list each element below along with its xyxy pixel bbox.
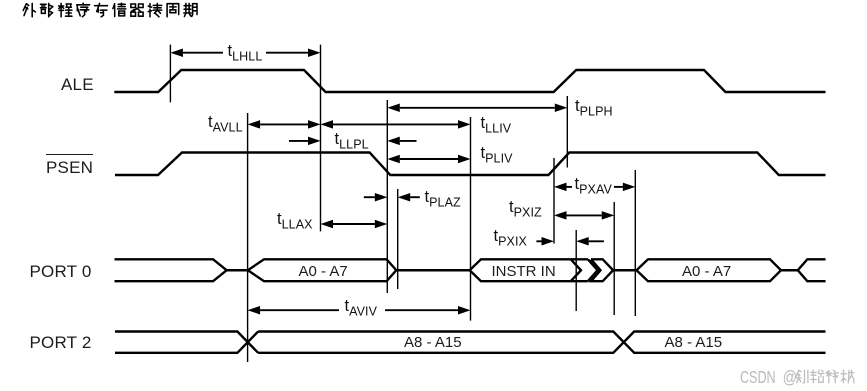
label PORT 2 [30, 334, 92, 351]
node tick tPXAV-right [634, 170, 636, 316]
wire PORT2 bus A8-A15 first segment [115, 332, 258, 353]
wire PORT0 trailing open segment [798, 259, 826, 281]
label tAVLL [208, 116, 243, 135]
label tAVIV [345, 300, 378, 319]
wire PORT0 float line 2 [396, 269, 469, 271]
node tick data-valid [470, 117, 472, 321]
node tick tPXIX-right [575, 230, 577, 311]
node tick tPLAZ-right [397, 189, 399, 289]
watermark CSDN [740, 369, 776, 386]
wire tAVLL dimension arrow [248, 120, 261, 128]
wire tPXAV dimension arrow [554, 183, 567, 192]
wire PORT0 float line 4 [781, 269, 798, 271]
wire PORT0 bus leading segment [115, 259, 227, 281]
node tick ALE-rise tLHLL left [169, 45, 171, 103]
label ALE [61, 76, 94, 93]
label tPLPH [575, 100, 613, 119]
wire tPLPH dimension arrow [387, 104, 400, 113]
label tPXIX [494, 230, 527, 249]
label bus value A8 - A15 first [404, 335, 462, 350]
wire tLHLL dimension arrow [170, 48, 183, 57]
node PORT0 second A0-A7 hexagon [637, 259, 782, 281]
wire tLLPL right outside arrow [387, 137, 400, 146]
wire tPXIX right outside arrow [576, 237, 589, 246]
wire tLLIV dimension arrow [321, 120, 334, 128]
node tick address-valid [247, 113, 249, 362]
title 外部程序存储器读周期 (drawn strokes) [23, 4, 26, 11]
wire tLLPL left outside arrow [289, 140, 308, 142]
node tick tPLPH-right [566, 96, 568, 168]
label bus value A0 - A7 first [299, 264, 348, 279]
label tLLPL [335, 133, 369, 152]
wire PSEN signal trace [115, 153, 826, 176]
node tick PSEN-rise tPXAV-left [553, 158, 555, 244]
wire tPLAZ right outside arrow [398, 193, 411, 202]
label tLLIV [481, 117, 512, 136]
wire tAVIV dimension arrow [248, 306, 261, 315]
label PSEN (with overline) [46, 154, 93, 176]
label PORT 0 [30, 263, 92, 280]
label tPLIV [481, 147, 513, 166]
node PORT0 A0-A7 address hexagon [248, 259, 396, 281]
wire tPXIZ dimension arrow [554, 211, 567, 220]
wire PORT0 float line 1 [227, 269, 248, 271]
label tLLAX [277, 213, 313, 232]
label tLHLL [228, 45, 263, 64]
node PORT0 bus float chevron 2 [591, 259, 613, 281]
node tick ALE-fall [320, 45, 322, 232]
label tPXIZ [509, 201, 542, 220]
wire tPLIV dimension arrow [387, 155, 400, 164]
label tPLAZ [425, 191, 461, 210]
label bus value A8 - A15 second [665, 335, 723, 350]
wire tLLAX dimension arrow [321, 220, 334, 229]
wire ALE signal trace [114, 70, 825, 92]
watermark @ [782, 369, 796, 386]
node PORT0 bus float chevron 1 [588, 259, 598, 281]
wire tPXIX left outside arrow [536, 240, 541, 242]
wire PORT2 bus crossover X and second segment [258, 332, 825, 353]
watermark CJK 创锐科技 (drawn strokes) [796, 370, 799, 376]
wire tPLAZ left outside arrow [364, 196, 375, 198]
label bus value A0 - A7 second [682, 264, 731, 279]
label bus value INSTR IN [492, 264, 556, 279]
node tick tPXIZ-right [613, 202, 615, 315]
label tPXAV [575, 178, 612, 197]
node PORT0 INSTR IN data hexagon [470, 259, 588, 281]
node tick PSEN-fall [386, 100, 388, 293]
wire PORT0 float line 3 [613, 269, 636, 271]
